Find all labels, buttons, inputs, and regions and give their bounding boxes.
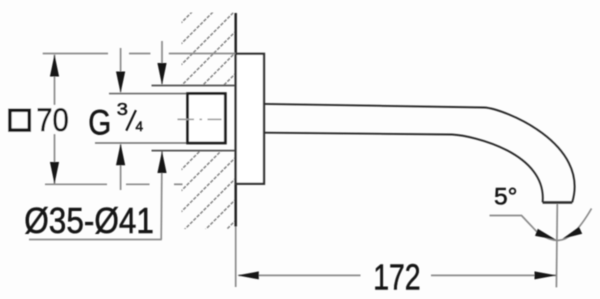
escutcheon plate [236,54,264,184]
spout bottom outline [264,133,543,203]
spout outlet face [543,201,573,204]
dim line 172 [239,274,361,276]
dim line square70 [54,55,56,184]
svg-text:3: 3 [117,99,128,119]
svg-text:4: 4 [136,119,144,135]
arrow 172 left [237,271,258,279]
svg-text:G: G [88,103,111,143]
angle arc 5deg [537,209,592,241]
svg-text:172: 172 [373,257,420,298]
dim ext line top (escutcheon top, dashed) [43,53,236,55]
label dia35 underline [29,239,162,241]
arrow angle left [535,229,556,240]
arrow G34 top [116,72,125,94]
union fitting extension top [109,93,188,95]
union fitting square [188,94,226,143]
arrow 172 right [535,271,557,279]
arrow angle right [563,227,583,239]
hole top line [152,85,236,87]
label square70 white back [3,105,70,134]
arrow square70 bottom [50,162,59,184]
dim line G34 upper [120,48,122,92]
label G34 [88,99,143,142]
label square70 symbol [10,110,29,130]
arrow dia35 top [157,63,166,85]
ext line 172 left (wall face) [235,227,237,288]
arrow G34 bottom [116,144,125,166]
hole bottom line [152,150,236,152]
svg-text:70: 70 [36,102,69,138]
fitting centerline [178,118,222,120]
dim line dia35 lower leader [160,152,163,240]
svg-text:Ø35-Ø41: Ø35-Ø41 [24,200,154,241]
wall hatching [129,0,249,299]
wall face line [234,13,237,227]
svg-text:5°: 5° [494,184,518,211]
spout top outline [264,104,575,202]
dim line G34 lower [120,145,122,191]
dim line dia35 upper [161,41,163,84]
ext line 172 right (outlet axis) [555,204,558,288]
union fitting extension bottom [95,142,188,144]
dim ext line bottom (escutcheon bottom, dashed) [45,183,183,185]
arrow square70 top [50,55,59,77]
arrow dia35 bottom [157,151,166,173]
leader 5deg [490,216,537,232]
